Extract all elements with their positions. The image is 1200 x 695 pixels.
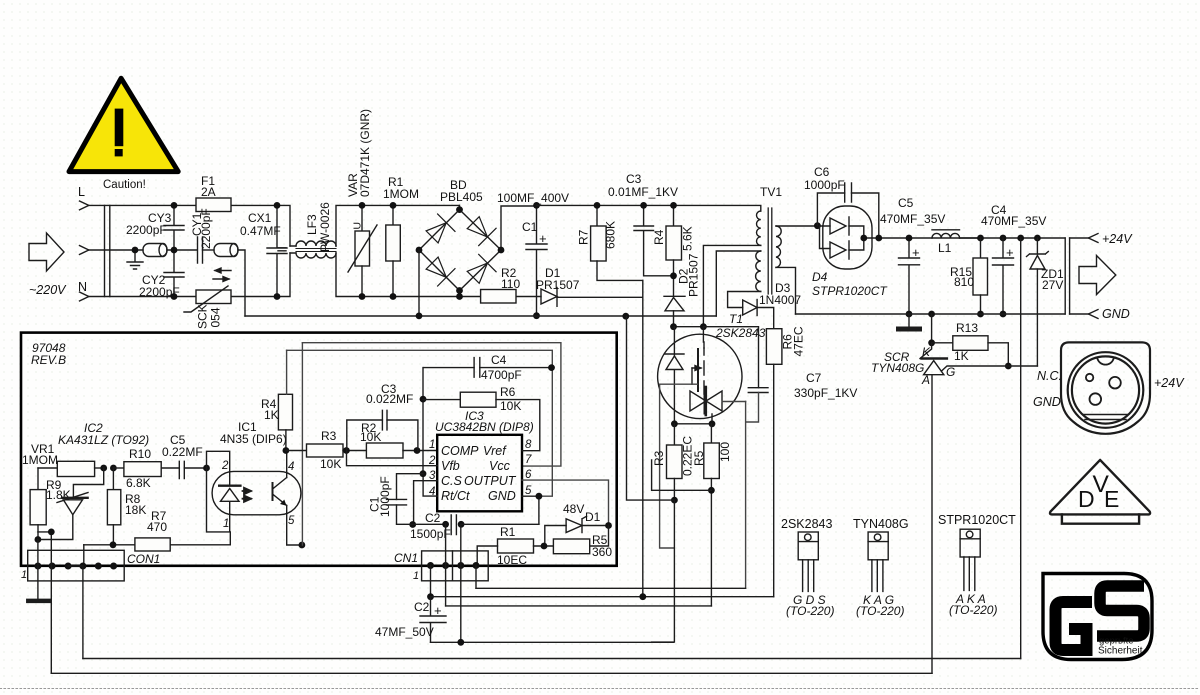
svg-text:R6: R6 — [500, 385, 516, 399]
svg-text:0.022MF: 0.022MF — [366, 392, 413, 406]
resistor R1 10EC — [498, 539, 534, 553]
Vcc rail A — [302, 343, 561, 466]
svg-text:(TO-220): (TO-220) — [786, 604, 834, 618]
capacitor C7 330pF_1KV — [748, 388, 768, 393]
bowtie right to C7 bottom — [722, 401, 745, 403]
svg-text:1500pF: 1500pF — [410, 527, 451, 541]
primary winding — [756, 211, 760, 245]
capacitor C5 470MF_35V — [899, 238, 920, 314]
capacitor C3 0.01MF_1KV — [634, 205, 674, 275]
resistor R2 10K — [366, 443, 403, 458]
+24V output chevron — [1088, 234, 1098, 243]
svg-text:4N35 (DIP6): 4N35 (DIP6) — [220, 432, 287, 446]
svg-text:SCK: SCK — [196, 304, 210, 329]
svg-text:COMP: COMP — [441, 444, 479, 458]
resistor R4 5.6K — [673, 205, 675, 226]
svg-text:1: 1 — [21, 569, 27, 581]
diode D1 PR1507 — [541, 289, 557, 304]
svg-text:C2: C2 — [425, 511, 441, 525]
isolation double bar — [105, 205, 110, 296]
inductor L1 — [932, 233, 960, 238]
svg-text:CON1: CON1 — [127, 552, 160, 566]
svg-text:R13: R13 — [956, 321, 978, 335]
bridge BD PBL405 — [419, 205, 537, 296]
svg-text:C4: C4 — [491, 353, 507, 367]
svg-text:R10: R10 — [129, 447, 151, 461]
wire R5 bottom link — [708, 487, 715, 494]
pin6 OUTPUT wire — [522, 480, 609, 525]
svg-text:1000pF: 1000pF — [804, 178, 845, 192]
svg-text:0.01MF_1KV: 0.01MF_1KV — [608, 185, 678, 199]
svg-text:+: + — [1006, 245, 1014, 260]
capacitor C4 4700pF — [474, 358, 480, 378]
GND output chevron — [1088, 310, 1098, 319]
wire aux bottom to D3 — [728, 292, 761, 308]
svg-text:GND: GND — [488, 489, 516, 503]
svg-text:4: 4 — [288, 461, 294, 473]
wire bottom D c2 return — [431, 641, 674, 643]
svg-text:8: 8 — [525, 439, 532, 451]
Vref rail B — [287, 350, 553, 496]
svg-text:PR1507: PR1507 — [536, 278, 580, 292]
svg-text:100: 100 — [718, 442, 732, 462]
thyristor SCR TYN408G — [920, 343, 932, 359]
wire pin4 drop — [82, 566, 84, 659]
svg-text:PW-0026: PW-0026 — [318, 202, 332, 252]
node L chevron — [80, 201, 89, 210]
wire bottom B vcc — [431, 596, 774, 598]
svg-text:R3: R3 — [652, 450, 666, 466]
svg-text:GND: GND — [1102, 307, 1130, 321]
ferrite bead left — [143, 244, 167, 257]
svg-text:KA431LZ (TO92): KA431LZ (TO92) — [58, 433, 149, 447]
ground (mid) — [127, 250, 143, 269]
svg-text:360: 360 — [592, 545, 612, 559]
drain node wiring — [674, 326, 704, 328]
fuse F1 — [196, 198, 231, 212]
svg-text:2200pF: 2200pF — [126, 223, 167, 237]
svg-text:+24V: +24V — [1102, 232, 1133, 246]
svg-text:Vfb: Vfb — [441, 459, 460, 473]
wire bottom A gate drive — [476, 587, 746, 589]
DIN output connector — [1061, 342, 1150, 433]
capacitor CY3 — [164, 205, 184, 250]
resistor R6 10K — [423, 399, 460, 401]
ground bar CON1 — [37, 540, 39, 601]
control board box 97048 REV.B — [21, 333, 617, 566]
svg-text:GND: GND — [1033, 395, 1061, 409]
svg-text:TV1: TV1 — [760, 185, 782, 199]
protection bowtie — [690, 391, 722, 411]
svg-text:5: 5 — [288, 515, 295, 527]
svg-text:1000pF: 1000pF — [378, 476, 392, 517]
svg-text:C1: C1 — [522, 220, 538, 234]
capacitor C2 1500pF — [451, 515, 456, 535]
svg-text:~220V: ~220V — [29, 283, 67, 297]
svg-text:5: 5 — [525, 485, 532, 497]
CS divider vertical — [422, 368, 424, 474]
diode D1 48V — [566, 519, 582, 533]
package STPR1020CT TO-220 — [938, 513, 1016, 617]
rectifier D4 STPR1020CT — [823, 206, 872, 269]
MOSFET symbol — [702, 327, 705, 394]
package 2SK2843 TO-220 — [781, 517, 834, 618]
svg-text:PR1507: PR1507 — [687, 253, 701, 297]
wire top rail to TV1 — [537, 205, 761, 211]
svg-text:1: 1 — [413, 570, 419, 582]
svg-text:6.8K: 6.8K — [126, 476, 151, 490]
svg-text:UC3842BN (DIP8): UC3842BN (DIP8) — [435, 420, 534, 434]
svg-text:470: 470 — [147, 520, 167, 534]
resistor R3 10K — [286, 450, 307, 452]
aux winding — [756, 251, 761, 291]
svg-text:REV.B: REV.B — [31, 353, 66, 367]
svg-text:TYN408G: TYN408G — [853, 517, 909, 531]
svg-text:A: A — [921, 373, 930, 387]
wire secondary bottom — [776, 267, 796, 314]
resistor R2 110 — [481, 290, 516, 304]
svg-text:1: 1 — [223, 518, 229, 530]
svg-text:LF3: LF3 — [305, 214, 319, 235]
wire N line — [89, 296, 196, 298]
capacitor C5 0.22MF — [179, 461, 184, 478]
svg-text:47EC: 47EC — [792, 326, 806, 356]
wire L line — [89, 204, 196, 206]
pin2 Vfb wire — [347, 451, 438, 466]
svg-text:10EC: 10EC — [497, 553, 527, 567]
resistor R7 470 — [84, 544, 135, 546]
capacitor CX1 — [267, 205, 287, 296]
pin4 RtCt wire — [423, 474, 437, 496]
thermistor arrows — [213, 268, 231, 282]
svg-text:2SK2843: 2SK2843 — [781, 517, 832, 531]
transistor T1 (MOSFET circle) — [658, 334, 742, 418]
svg-text:48V: 48V — [563, 502, 584, 516]
capacitor CY2 — [164, 250, 184, 297]
capacitor C1 100MF_400V — [526, 205, 547, 315]
svg-text:C5: C5 — [898, 196, 914, 210]
output isolation double bar — [1065, 238, 1069, 314]
pin3 CS wire — [414, 481, 438, 525]
body diode inside T1 — [673, 327, 675, 355]
svg-text:10K: 10K — [360, 430, 381, 444]
svg-text:R3: R3 — [321, 429, 337, 443]
svg-text:2200pF: 2200pF — [199, 208, 213, 249]
svg-text:810: 810 — [954, 275, 974, 289]
connector CN1 — [422, 551, 489, 581]
wire GND rail secondary — [796, 313, 1066, 315]
svg-text:(TO-220): (TO-220) — [949, 603, 997, 617]
svg-text:27V: 27V — [1042, 278, 1063, 292]
svg-text:R1: R1 — [500, 525, 516, 539]
svg-text:10K: 10K — [500, 399, 521, 413]
wire primary bottom to drain — [703, 245, 760, 326]
output arrow — [1079, 256, 1116, 295]
thermistor SCK 054 — [196, 290, 231, 304]
svg-text:Vref: Vref — [483, 444, 507, 458]
svg-text:G: G — [946, 365, 955, 379]
resistor R15 810 — [977, 235, 984, 242]
svg-text:+24V: +24V — [1154, 376, 1185, 390]
svg-text:L: L — [78, 185, 85, 199]
svg-text:N.C.: N.C. — [1037, 369, 1062, 383]
svg-text:100MF_400V: 100MF_400V — [497, 191, 569, 205]
node dots VAR — [359, 202, 366, 209]
input arrow ~220V — [29, 233, 64, 271]
secondary winding — [776, 226, 781, 267]
svg-text:PBL405: PBL405 — [440, 190, 483, 204]
svg-text:CX1: CX1 — [248, 211, 272, 225]
svg-text:07D471K (GNR): 07D471K (GNR) — [358, 109, 372, 197]
VDE logo — [1050, 460, 1150, 524]
svg-text:054: 054 — [209, 307, 223, 327]
svg-text:OUTPUT: OUTPUT — [464, 474, 517, 488]
svg-text:N: N — [78, 280, 87, 294]
wire bridge left to rail — [418, 250, 420, 316]
svg-text:Caution!: Caution! — [103, 179, 146, 191]
resistor R5 360 — [553, 539, 589, 554]
svg-text:0.22MF: 0.22MF — [162, 445, 203, 459]
svg-text:+: + — [434, 603, 442, 618]
svg-text:TYN408G: TYN408G — [871, 361, 924, 375]
svg-text:1K: 1K — [264, 408, 279, 422]
svg-text:C2: C2 — [414, 600, 430, 614]
capacitor C6 1000pF — [845, 183, 852, 202]
svg-text:1: 1 — [429, 439, 435, 451]
svg-text:R7: R7 — [577, 229, 591, 245]
ferrite bead right — [214, 244, 238, 257]
capacitor C1 1000pF — [387, 499, 407, 505]
wire sense R3 bottom — [671, 497, 678, 504]
wire bottom F primary gnd — [51, 672, 932, 674]
resistor R3 0.22EC — [673, 424, 675, 445]
svg-text:47MF_50V: 47MF_50V — [375, 625, 434, 639]
svg-text:C6: C6 — [814, 165, 830, 179]
svg-text:CN1: CN1 — [394, 551, 418, 565]
svg-text:Vcc: Vcc — [489, 459, 511, 473]
svg-text:R5: R5 — [692, 450, 706, 466]
svg-text:Rt/Ct: Rt/Ct — [441, 489, 470, 503]
source node wiring — [674, 414, 712, 424]
svg-text:470MF_35V: 470MF_35V — [880, 212, 945, 226]
connector CON1 — [28, 550, 125, 581]
svg-text:1K: 1K — [954, 349, 969, 363]
resistor R10 6.8K — [110, 465, 117, 472]
svg-text:E: E — [1104, 486, 1119, 512]
svg-text:U: U — [352, 222, 364, 230]
warning triangle — [69, 78, 178, 171]
svg-text:5.6K: 5.6K — [681, 226, 695, 251]
package TYN408G TO-220 — [853, 517, 909, 618]
wire bottom E 24v sense — [83, 658, 1021, 660]
svg-text:10K: 10K — [320, 457, 341, 471]
wire secondary top — [776, 225, 823, 227]
svg-text:680K: 680K — [604, 221, 618, 249]
ground symbol secondary — [908, 314, 910, 329]
resistor R7 680K — [596, 205, 598, 226]
resistor R5 100 — [710, 424, 712, 443]
wire +24 sense drop — [1017, 235, 1024, 242]
resistor R13 1K — [928, 311, 935, 318]
wire D1 cathode drop / R7 drop — [642, 280, 644, 597]
svg-text:470MF_35V: 470MF_35V — [981, 214, 1046, 228]
capacitor CY1 (series) — [198, 237, 203, 263]
svg-text:D4: D4 — [812, 270, 828, 284]
svg-text:K: K — [922, 345, 931, 359]
svg-text:6: 6 — [525, 469, 532, 481]
capacitor C4 470MF_35V — [1000, 235, 1007, 242]
svg-text:T1: T1 — [729, 312, 743, 326]
GS logo — [1043, 574, 1152, 660]
svg-text:18K: 18K — [125, 503, 146, 517]
wire +24 rail — [960, 237, 1066, 239]
node N chevron — [80, 292, 89, 301]
resistor R9 1.8K — [37, 468, 39, 490]
svg-text:1MOM: 1MOM — [22, 453, 58, 467]
wire mid line — [89, 249, 143, 251]
diode D3 1N4007 — [743, 300, 757, 315]
wire L top — [362, 204, 459, 206]
gate wire — [660, 384, 698, 548]
svg-text:0.47MF: 0.47MF — [240, 224, 281, 238]
svg-text:4700pF: 4700pF — [481, 368, 522, 382]
svg-text:2A: 2A — [201, 185, 216, 199]
svg-text:Sicherheit: Sicherheit — [1098, 646, 1143, 657]
resistor R8 18K — [112, 468, 114, 490]
svg-text:(TO-220): (TO-220) — [856, 604, 904, 618]
choke LF3 PW-0026 — [278, 205, 362, 258]
pin5 GND wire — [437, 510, 522, 512]
wire bottom C sense — [446, 605, 712, 607]
wire aux top to rail — [716, 251, 761, 316]
varistor VAR 07D471K — [361, 205, 363, 231]
mid chevron — [80, 246, 89, 255]
svg-text:7: 7 — [525, 454, 532, 466]
wire primary return rail y316 — [245, 315, 716, 317]
svg-text:C3: C3 — [626, 172, 642, 186]
wire pin2 drop — [38, 532, 51, 673]
capacitor C2 47MF_50V — [427, 593, 434, 600]
svg-text:STPR1020CT: STPR1020CT — [812, 284, 888, 298]
svg-text:+: + — [912, 245, 920, 260]
svg-text:R4: R4 — [652, 229, 666, 245]
resistor R1 1MOM — [392, 205, 394, 225]
svg-text:2: 2 — [221, 460, 229, 472]
capacitor C3 0.022MF — [382, 410, 387, 430]
resistor R6 47EC — [766, 329, 782, 365]
svg-text:D1: D1 — [585, 510, 601, 524]
core — [768, 208, 772, 294]
svg-text:330pF_1KV: 330pF_1KV — [794, 386, 857, 400]
svg-text:1MOM: 1MOM — [383, 187, 419, 201]
diode D2 PR1507 — [664, 295, 685, 297]
svg-text:D: D — [1078, 486, 1095, 512]
svg-text:STPR1020CT: STPR1020CT — [938, 513, 1016, 527]
resistor R4 1K — [278, 394, 292, 430]
svg-text:C7: C7 — [806, 371, 822, 385]
svg-text:C.S: C.S — [441, 474, 463, 488]
svg-text:+: + — [539, 231, 547, 246]
svg-text:110: 110 — [501, 277, 520, 291]
zener ZD1 27V — [1034, 235, 1041, 242]
svg-text:L1: L1 — [938, 241, 952, 255]
